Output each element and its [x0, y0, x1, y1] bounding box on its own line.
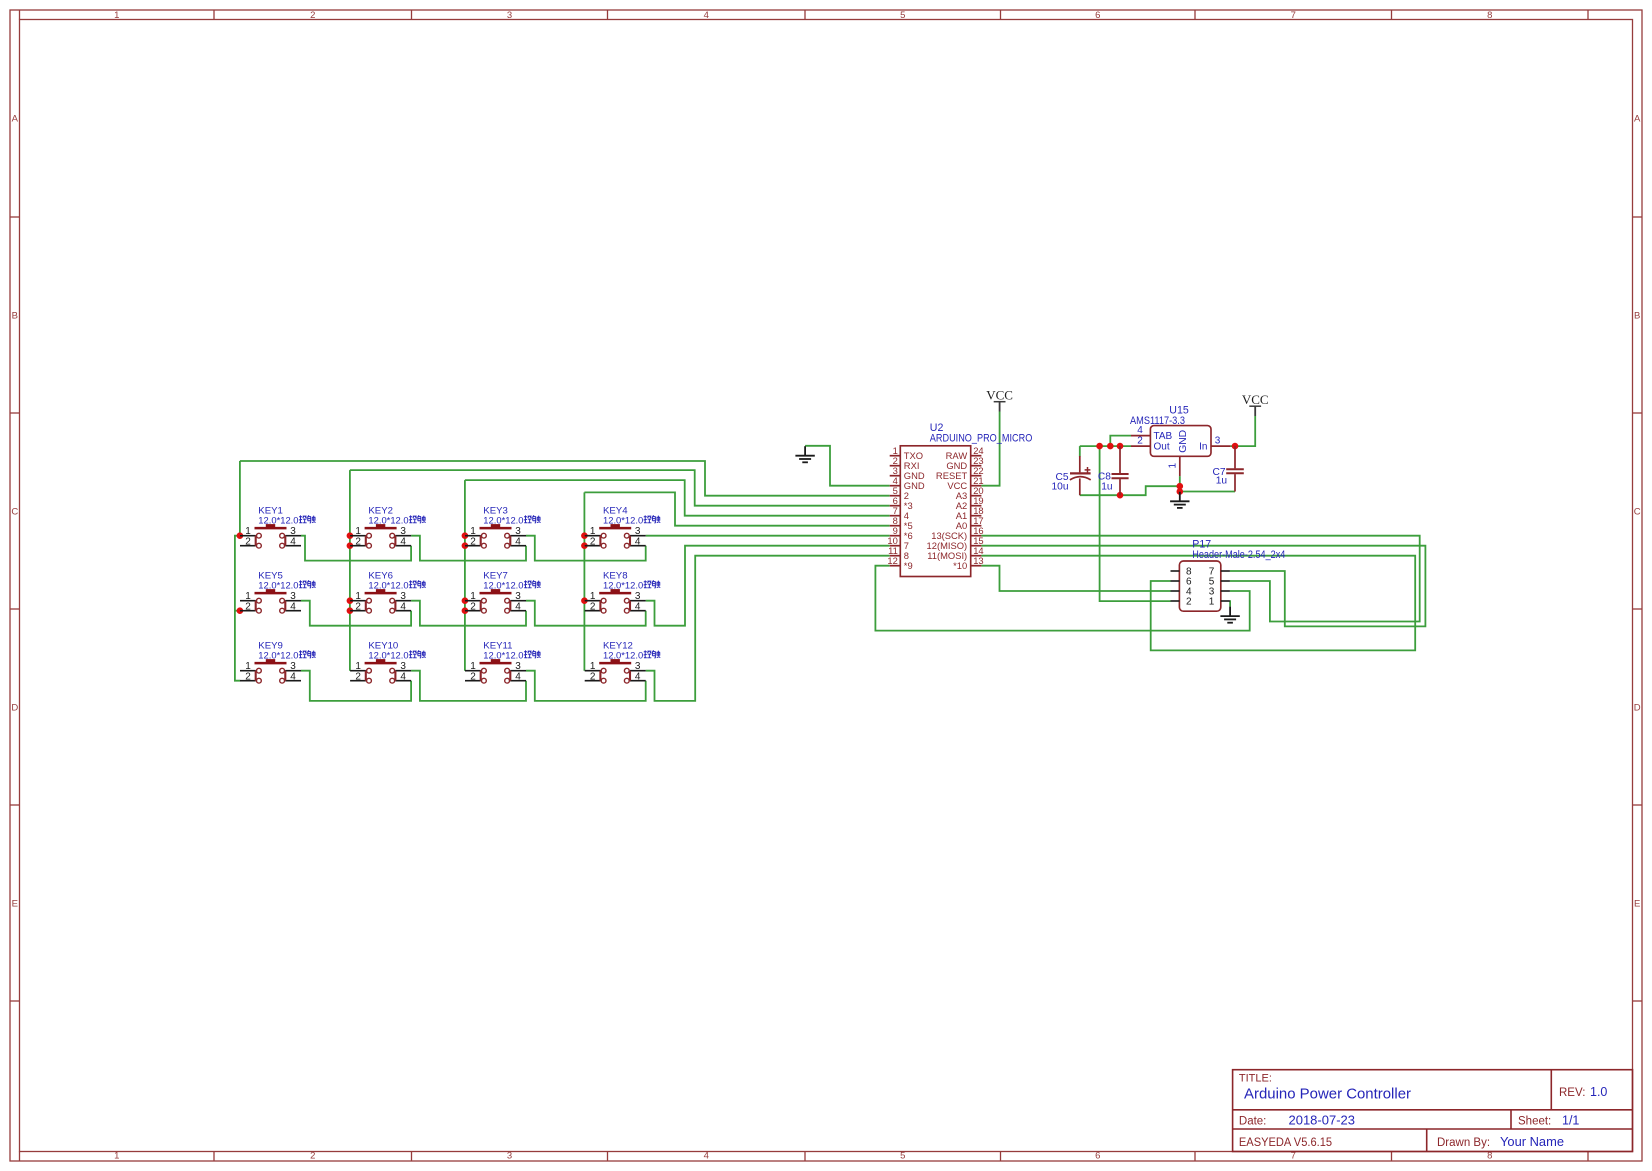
svg-text:2: 2 — [310, 1150, 315, 1161]
svg-text:*9: *9 — [904, 560, 913, 571]
svg-text:7: 7 — [1291, 10, 1296, 21]
svg-text:Sheet:: Sheet: — [1518, 1115, 1551, 1127]
svg-text:12.0*12.0: 12.0*12.0 — [258, 515, 298, 526]
svg-text:In: In — [1199, 442, 1207, 453]
svg-text:E: E — [1634, 898, 1640, 909]
svg-text:C: C — [1634, 506, 1641, 517]
svg-text:REV:: REV: — [1559, 1087, 1585, 1099]
svg-text:2: 2 — [1186, 597, 1192, 608]
svg-text:12.0*12.0: 12.0*12.0 — [483, 580, 523, 591]
svg-text:*10: *10 — [953, 560, 967, 571]
svg-text:6: 6 — [1095, 1150, 1100, 1161]
svg-text:Arduino Power Controller: Arduino Power Controller — [1244, 1087, 1411, 1103]
svg-text:TITLE:: TITLE: — [1239, 1073, 1272, 1085]
svg-text:Header-Male-2.54_2x4: Header-Male-2.54_2x4 — [1192, 549, 1285, 561]
svg-text:12.0*12.0: 12.0*12.0 — [603, 515, 643, 526]
svg-text:12.0*12.0: 12.0*12.0 — [368, 650, 408, 661]
svg-text:A: A — [1634, 114, 1641, 125]
svg-text:ARDUINO_PRO_MICRO: ARDUINO_PRO_MICRO — [930, 432, 1033, 444]
svg-text:12.0*12.0: 12.0*12.0 — [258, 650, 298, 661]
svg-text:1u: 1u — [1216, 476, 1227, 487]
svg-text:6: 6 — [1095, 10, 1100, 21]
svg-text:B: B — [1634, 310, 1640, 321]
svg-text:Your Name: Your Name — [1500, 1135, 1564, 1149]
svg-text:EASYEDA V5.6.15: EASYEDA V5.6.15 — [1239, 1137, 1332, 1149]
svg-text:5: 5 — [900, 10, 905, 21]
svg-text:D: D — [11, 702, 18, 713]
svg-text:4: 4 — [704, 10, 709, 21]
svg-text:1/1: 1/1 — [1562, 1113, 1579, 1127]
svg-text:TAB: TAB — [1154, 431, 1173, 442]
svg-text:1: 1 — [114, 1150, 119, 1161]
svg-text:1: 1 — [1209, 597, 1215, 608]
svg-text:Drawn By:: Drawn By: — [1437, 1137, 1490, 1149]
svg-text:GND: GND — [1178, 430, 1189, 453]
svg-text:D: D — [1634, 702, 1641, 713]
svg-text:13: 13 — [973, 555, 983, 566]
svg-text:4: 4 — [1137, 425, 1143, 436]
svg-text:B: B — [12, 310, 18, 321]
svg-text:2018-07-23: 2018-07-23 — [1289, 1113, 1356, 1127]
svg-text:2: 2 — [310, 10, 315, 21]
svg-text:12.0*12.0: 12.0*12.0 — [258, 580, 298, 591]
svg-text:1.0: 1.0 — [1590, 1085, 1607, 1099]
svg-text:1u: 1u — [1101, 481, 1112, 492]
svg-text:2: 2 — [1137, 436, 1143, 447]
svg-text:E: E — [12, 898, 18, 909]
svg-text:12.0*12.0: 12.0*12.0 — [483, 650, 523, 661]
svg-text:12: 12 — [887, 555, 897, 566]
svg-text:5: 5 — [900, 1150, 905, 1161]
svg-text:A: A — [12, 114, 19, 125]
svg-text:3: 3 — [507, 1150, 512, 1161]
svg-text:3: 3 — [1215, 436, 1221, 447]
svg-text:10u: 10u — [1052, 482, 1069, 493]
svg-text:Date:: Date: — [1239, 1115, 1267, 1127]
svg-text:3: 3 — [507, 10, 512, 21]
svg-text:1: 1 — [114, 10, 119, 21]
svg-text:C: C — [11, 506, 18, 517]
svg-text:8: 8 — [1487, 10, 1492, 21]
svg-text:4: 4 — [704, 1150, 709, 1161]
svg-text:12.0*12.0: 12.0*12.0 — [368, 515, 408, 526]
svg-text:12.0*12.0: 12.0*12.0 — [368, 580, 408, 591]
svg-text:Out: Out — [1154, 442, 1170, 453]
svg-text:1: 1 — [1168, 463, 1179, 469]
svg-text:12.0*12.0: 12.0*12.0 — [603, 580, 643, 591]
svg-text:12.0*12.0: 12.0*12.0 — [483, 515, 523, 526]
svg-text:12.0*12.0: 12.0*12.0 — [603, 650, 643, 661]
